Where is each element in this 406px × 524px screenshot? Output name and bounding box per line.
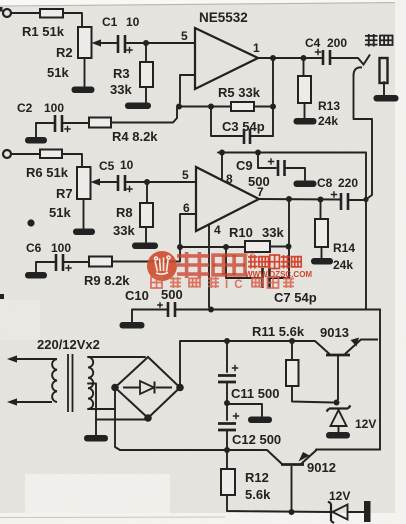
plus sign of C11 (232, 365, 238, 371)
capacitor C7 54p (263, 268, 270, 288)
junction output1/R13 (301, 55, 307, 61)
wire output node to R14 (320, 200, 322, 220)
wire bridge bottom node to center tap (96, 418, 148, 420)
resistor R3 33k (140, 62, 153, 87)
svg-text:C11 500: C11 500 (231, 386, 279, 401)
page margin bottom (0, 513, 406, 524)
wire output node to R13 (303, 58, 305, 76)
wire R10 right to feedback node (270, 246, 288, 248)
wiper arrow of R7 (99, 181, 117, 183)
op-amp U1A (NE5532) (195, 28, 258, 89)
plus sign of C12 (233, 413, 239, 419)
svg-text:IC: IC (225, 279, 249, 291)
wire bridge left node down to negative row (115, 388, 120, 451)
wire C3 left branch (211, 107, 243, 137)
svg-text:10: 10 (120, 158, 134, 172)
AC input arrow top (16, 358, 57, 360)
wire node B to R5 (179, 106, 231, 108)
svg-text:220/12Vx2: 220/12Vx2 (37, 337, 100, 352)
plus sign of C5 (126, 186, 132, 192)
wire C11 to mid node (226, 383, 228, 400)
edge artifact mid-left (0, 294, 4, 299)
plus sign of C4 (315, 49, 321, 55)
capacitor C2 100uF (55, 115, 62, 132)
svg-text:7: 7 (257, 185, 264, 199)
wire C6 to R9 (64, 261, 89, 263)
svg-text:C1: C1 (102, 15, 118, 29)
capacitor C1 10uF (118, 35, 125, 53)
transistor Q1 9013 (315, 341, 330, 355)
junction rail/C9 (255, 150, 261, 156)
wire C7 left branch (226, 247, 261, 278)
svg-text:R10: R10 (229, 225, 253, 240)
wire C12 to negative row (226, 431, 228, 450)
ground under R2 (72, 87, 95, 94)
resistor R9 8.2k (89, 257, 112, 267)
svg-text:R13: R13 (318, 99, 340, 113)
wire R6 to R7 top (62, 154, 82, 167)
svg-text:9012: 9012 (307, 460, 336, 475)
watermark 电子市场网 char 5 (292, 257, 302, 267)
svg-text:C6: C6 (26, 241, 42, 255)
node D (op2 inv) (177, 244, 183, 250)
watermark 电子市场网 char 3 (270, 255, 280, 269)
junction R5/C3/output (270, 104, 276, 110)
wire to R10 left (226, 246, 245, 248)
ground under jack sleeve (374, 95, 399, 102)
edge artifact top-left (0, 7, 3, 12)
wire C7 right branch (271, 277, 289, 279)
junction raw+/R11 (289, 338, 295, 344)
svg-text:R6 51k: R6 51k (26, 165, 69, 180)
wire output1 down to C3 level (272, 58, 274, 136)
wire R13 to ground (304, 103, 306, 118)
svg-text:R4 8.2k: R4 8.2k (112, 129, 158, 144)
svg-text:33k: 33k (262, 225, 284, 240)
svg-text:C9: C9 (236, 158, 253, 173)
watermark 全球最大 char 1 (151, 277, 162, 288)
junction node D / C7 branch (223, 244, 229, 250)
page margin right (395, 0, 406, 524)
bridge bottom node (144, 414, 152, 422)
wire R5 to output node (254, 106, 273, 108)
plus sign of C9 (268, 158, 274, 164)
svg-text:R2: R2 (56, 45, 73, 60)
ground under transformer center tap (84, 435, 108, 442)
wire zener D2 to terminal (348, 511, 364, 513)
watermark logo circle (147, 251, 177, 281)
V+ drop wire right side (365, 153, 367, 310)
wire C9 to ground (286, 168, 305, 180)
svg-text:R14: R14 (333, 241, 355, 255)
svg-text:12V: 12V (355, 417, 376, 431)
wire op2 output to C8 (259, 198, 340, 201)
wire ground to C2 (36, 123, 54, 137)
ground at V- rail left (120, 322, 145, 329)
ground under R13 (294, 118, 317, 125)
junction C12/negative row (224, 447, 230, 453)
wire jack ring down to C8 node (354, 77, 373, 199)
junction output1/feedback (270, 55, 276, 61)
svg-text:C2: C2 (17, 101, 33, 115)
wire right rail to 9012 emitter (316, 449, 380, 451)
bridge right node (176, 384, 184, 392)
bottom row wire to zener D2 (227, 495, 330, 512)
wire ground to C10 (132, 310, 167, 323)
label 耳 (headphone) (365, 34, 378, 47)
svg-text:R8: R8 (116, 205, 133, 220)
AC input arrow bottom (16, 401, 52, 403)
node B (op1 inv) (176, 104, 182, 110)
capacitor C11 500uF (218, 376, 236, 383)
svg-text:C10: C10 (125, 288, 149, 303)
svg-text:C12 500: C12 500 (232, 432, 281, 447)
wire J1 to R1 (11, 12, 40, 14)
bridge left node (111, 384, 119, 392)
watermark 全球最大 char 3 (189, 278, 200, 286)
capacitor C3 54p (244, 129, 250, 144)
node C (op2 + input) (144, 179, 150, 185)
wire negative row down to R12 (226, 450, 228, 469)
svg-text:100: 100 (44, 101, 64, 115)
svg-text:R5 33k: R5 33k (218, 85, 261, 100)
svg-text:51k: 51k (49, 205, 71, 220)
junction raw+/C11 (224, 338, 230, 344)
wire node D to R10 (180, 246, 226, 248)
svg-text:R1 51k: R1 51k (22, 24, 65, 39)
watermark 库 (213, 255, 245, 275)
junction node B / C3 branch (208, 104, 214, 110)
ground under R14 (311, 258, 333, 265)
op-amp U1B (NE5532) (196, 167, 259, 231)
ground left of C6 (25, 272, 47, 279)
plus sign of C8 (331, 191, 337, 197)
watermark 采购网 char 3 (283, 277, 294, 288)
junction pin4/V- rail (208, 307, 214, 313)
V- rail wire (176, 309, 380, 311)
resistor R14 24k (315, 219, 328, 247)
svg-text:200: 200 (327, 36, 347, 50)
svg-text:5: 5 (182, 168, 189, 182)
input terminal J2 (right channel) (3, 150, 11, 158)
ground under C9 (294, 181, 317, 188)
junction at V+ drop / C8 (363, 197, 368, 202)
plus sign of C1 (126, 47, 132, 53)
wire R4 up to node B (111, 108, 177, 123)
input terminal J1 (left channel) (3, 9, 11, 17)
junction pin8/rail (219, 150, 225, 156)
ground under R7 (73, 229, 95, 236)
wiper arrow of R2 (99, 42, 117, 44)
transistor Q2 9012 (267, 450, 282, 464)
potentiometer R2 51k (78, 27, 92, 58)
wire C4 to phone jack tip (331, 57, 358, 59)
wire C5 to node C (126, 181, 147, 183)
svg-text:6: 6 (183, 201, 190, 215)
resistor R6 51k (40, 150, 62, 159)
terminal bar (364, 501, 371, 522)
node A (op1 + input) (143, 40, 149, 46)
svg-text:33k: 33k (110, 82, 132, 97)
stray ink dot (27, 219, 34, 226)
resistor R8 33k (140, 203, 153, 227)
wire rail down to C9 (258, 153, 276, 169)
watermark 采购网 char 1 (252, 278, 263, 286)
wire node C down to R8 (146, 185, 148, 203)
junction output2/R14 (318, 197, 324, 203)
wire raw+ to R11 (291, 341, 293, 360)
resistor R10 33k (245, 241, 270, 252)
plus sign of C10 (157, 302, 163, 308)
junction zener D1/base 9013 (334, 400, 340, 406)
wire C1 to node (126, 42, 146, 44)
watermark 采购网 char 2 (268, 277, 279, 288)
wire C3 right branch (251, 135, 273, 137)
wire node A down to R3 (145, 46, 147, 62)
svg-text:R11 5.6k: R11 5.6k (252, 324, 305, 339)
watermark 全球最大 char 2 (170, 277, 181, 288)
background light patch mid-left (0, 300, 40, 340)
plus sign of C6 (65, 265, 71, 271)
wire node A to pin 5 (146, 42, 194, 44)
svg-text:24k: 24k (333, 258, 353, 272)
wire mid node to ground (227, 404, 262, 416)
watermark 电子市场网 char 4 (281, 255, 291, 269)
transformer T1 secondary winding (88, 357, 93, 409)
watermark 电子市场网 char 2 (259, 257, 269, 267)
wire J2 to R6 (11, 153, 40, 155)
svg-text:5: 5 (181, 29, 188, 43)
wire op1 inverting input down (180, 75, 195, 103)
svg-text:33k: 33k (113, 223, 135, 238)
svg-text:R7: R7 (56, 186, 73, 201)
wire R3 to ground (145, 87, 147, 102)
wire pin 8 up to V+ rail (221, 153, 223, 180)
capacitor C12 500uF (218, 424, 236, 431)
ground right of C11 (248, 417, 272, 424)
edge artifact mid-left (0, 294, 4, 299)
svg-text:51k: 51k (47, 65, 69, 80)
wire feedback down to C7 level (288, 199, 290, 278)
wire secondary center tap down (88, 384, 96, 436)
resistor R1 51k (40, 9, 63, 18)
edge artifact top-left (0, 7, 3, 12)
junction R10/C7/output2 (286, 244, 292, 250)
wire R2 bottom to ground (84, 58, 86, 86)
wire C8 to V+ drop line (349, 199, 366, 201)
watermark 维 (177, 252, 209, 278)
capacitor C8 220uF (341, 193, 348, 210)
wire node C to pin 5 of op2 (147, 181, 195, 183)
wire R8 to ground (145, 227, 147, 242)
svg-text:12V: 12V (329, 489, 350, 503)
headphone jack sleeve (380, 58, 388, 83)
junction output2/feedback (286, 196, 292, 202)
wire R14 to ground (321, 247, 323, 258)
resistor R12 5.6k (221, 469, 235, 495)
svg-text:100: 100 (51, 241, 71, 255)
zener diode D2 12V (328, 502, 334, 524)
wire op2 inverting input down (180, 214, 196, 244)
ground left of C2 (25, 137, 47, 144)
svg-text:10: 10 (126, 15, 140, 29)
wire bridge right node up to + raw rail (180, 341, 315, 388)
resistor R11 5.6k (286, 360, 299, 386)
ground under R3 (125, 103, 151, 110)
resistor R4 8.2k (89, 118, 111, 128)
bridge diode symbol (123, 382, 172, 394)
zener diode D1 12V (327, 406, 351, 412)
potentiometer R7 51k (77, 167, 91, 199)
wire op1 output to C4 (258, 57, 322, 59)
svg-text:24k: 24k (318, 114, 338, 128)
wire mid node down to C12 (226, 403, 228, 420)
wire secondary bottom tap to bridge left node (88, 408, 115, 410)
headphone jack ring contact (353, 67, 362, 77)
wire R1 to R2 top (63, 13, 82, 27)
headphone jack tip contact (358, 55, 370, 65)
wire pin 4 down to V- rail (208, 225, 210, 308)
capacitor C10 500 (168, 302, 175, 317)
background light patch bottom-left (25, 474, 170, 514)
svg-text:5.6k: 5.6k (245, 487, 271, 502)
V rail jog down right side (366, 310, 380, 450)
capacitor C9 500 (278, 160, 285, 176)
svg-text:C7 54p: C7 54p (274, 290, 317, 305)
wire C2 to R4 (63, 122, 89, 124)
svg-text:8: 8 (226, 172, 233, 186)
wire sleeve to ground (383, 82, 385, 95)
tiny joint (337, 402, 338, 404)
svg-text:1: 1 (253, 41, 260, 55)
V+ rail wire (218, 152, 366, 154)
label 机 (headphone) (380, 36, 393, 46)
watermark 全球最大 char 4 (208, 277, 219, 288)
junction C11/C12/ground branch (224, 400, 230, 406)
svg-text:R3: R3 (113, 66, 130, 81)
plus sign of C2 (64, 126, 70, 132)
junction 9012 base/bottom row (289, 509, 295, 515)
watermark 电子市场网 char 1 (248, 255, 258, 269)
wire secondary top tap to bridge (88, 356, 145, 358)
ground under R8 (132, 243, 158, 250)
svg-text:500: 500 (161, 287, 183, 302)
bridge rectifier outline (115, 357, 180, 418)
negative row wire (120, 449, 267, 451)
svg-text:NE5532: NE5532 (199, 10, 248, 25)
ground under zener D1 (326, 432, 350, 439)
svg-text:9013: 9013 (320, 325, 349, 340)
svg-text:C8: C8 (317, 176, 333, 190)
wire R11 bottom to zener node (292, 386, 333, 403)
svg-text:C3 54p: C3 54p (222, 119, 265, 134)
resistor R13 24k (298, 76, 311, 103)
resistor R5 33k (231, 102, 254, 111)
wire R9 to node D (112, 247, 180, 262)
page margin bottom (0, 513, 406, 524)
wire R7 bottom to ground (83, 199, 85, 228)
svg-text:220: 220 (338, 176, 358, 190)
svg-text:R9 8.2k: R9 8.2k (84, 273, 130, 288)
svg-text:C4: C4 (305, 36, 321, 50)
transformer T1 core (68, 354, 73, 412)
wire ground to C6 (36, 262, 55, 272)
capacitor C5 10uF (118, 175, 125, 191)
capacitor C4 200uF (323, 50, 330, 65)
capacitor C6 100uF (56, 254, 63, 271)
svg-text:R12: R12 (245, 470, 269, 485)
transformer T1 primary winding (52, 359, 57, 402)
svg-text:4: 4 (214, 223, 221, 237)
wire raw+ down to C11 (226, 341, 228, 372)
svg-text:C5: C5 (99, 159, 115, 173)
page margin top (0, 0, 406, 6)
